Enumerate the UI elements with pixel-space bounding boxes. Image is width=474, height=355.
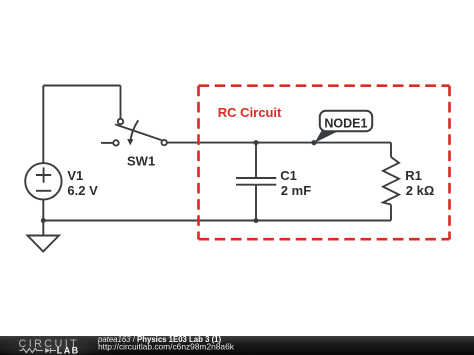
C1 bottom plate: [236, 184, 276, 186]
svg-text:http://circuitlab.com/c6nz98m2: http://circuitlab.com/c6nz98m2n8a6k: [98, 341, 235, 351]
wire bottom rail: [43, 220, 391, 222]
svg-text:LAB: LAB: [57, 346, 80, 355]
svg-text:2 kΩ: 2 kΩ: [406, 183, 435, 198]
ground stem wire: [42, 221, 44, 236]
RC Circuit box right edge: [448, 86, 451, 240]
NODE1 flag bubble: [320, 111, 372, 131]
svg-text:NODE1: NODE1: [324, 116, 367, 130]
NODE1 flag pointer tail: [315, 130, 341, 143]
SW1 actuation arrowhead: [127, 139, 133, 145]
junction dot (V1 / ground rail): [41, 218, 46, 223]
V1 body circle: [25, 163, 61, 199]
SW1 common terminal: [118, 119, 123, 124]
C1 top lead wire: [255, 143, 257, 178]
RC Circuit box left edge: [197, 86, 200, 240]
CircuitLab logo diode glyph: [45, 348, 50, 353]
R1 zigzag body: [383, 157, 399, 205]
RC Circuit box bottom edge: [199, 238, 450, 241]
footer bar: [0, 336, 474, 355]
capacitor C1: [236, 143, 276, 221]
wire open throw stub: [101, 142, 113, 144]
switch SW1: [101, 119, 167, 146]
RC Circuit box top edge: [199, 84, 450, 87]
svg-text:V1: V1: [67, 168, 83, 183]
wire resistor top stub: [390, 143, 392, 157]
junction dot (node NODE1): [311, 140, 316, 145]
svg-text:6.2 V: 6.2 V: [67, 183, 98, 198]
ground: [28, 221, 60, 252]
C1 top plate: [236, 177, 276, 179]
svg-text:C1: C1: [280, 168, 297, 183]
SW1 closed throw terminal: [162, 140, 167, 145]
SW1 blade: [115, 124, 161, 140]
V1 plus sign: [36, 167, 51, 182]
SW1 open throw terminal: [113, 140, 118, 145]
wire top rail left (V1 top to switch feed): [43, 85, 120, 87]
ground triangle: [28, 236, 60, 252]
junction dot (cap top): [254, 140, 259, 145]
voltage source V1: [25, 163, 61, 199]
wire V1 bottom to ground rail: [42, 200, 44, 221]
CircuitLab logo resistor glyph: [20, 348, 43, 352]
wire switch output to resistor corner: [167, 142, 391, 144]
resistor R1: [383, 157, 399, 205]
junction dot (cap bottom): [254, 218, 259, 223]
wire left vertical (top rail down to V1 plus): [42, 86, 44, 164]
svg-text:SW1: SW1: [127, 153, 155, 168]
C1 bottom lead wire: [255, 185, 257, 221]
node NODE1 flag: [315, 111, 373, 143]
V1 minus sign: [36, 190, 51, 192]
RC Circuit dashed box: [199, 86, 450, 240]
svg-text:RC Circuit: RC Circuit: [218, 105, 282, 120]
wire resistor bottom stub: [390, 205, 392, 221]
SW1 actuation arrow arc: [131, 120, 139, 140]
svg-text:2 mF: 2 mF: [281, 183, 311, 198]
svg-text:R1: R1: [405, 168, 422, 183]
wire switch feed vertical: [120, 86, 122, 119]
